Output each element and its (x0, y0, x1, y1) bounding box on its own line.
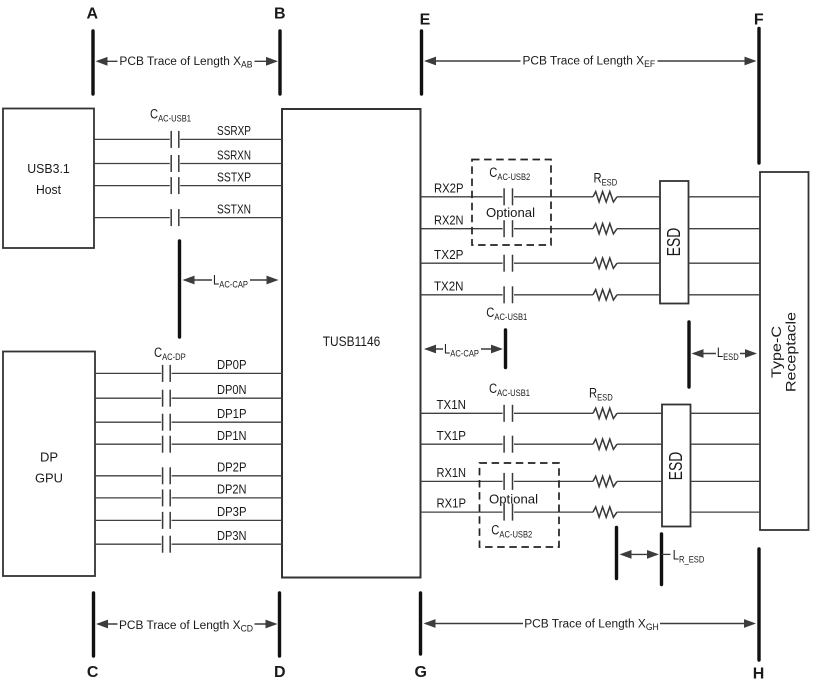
svg-text:Optional: Optional (489, 492, 538, 507)
svg-text:TUSB1146: TUSB1146 (323, 334, 381, 349)
svg-text:DP2P: DP2P (217, 460, 247, 475)
svg-text:TX2N: TX2N (434, 278, 464, 293)
svg-text:Host: Host (36, 182, 61, 197)
svg-text:RX1N: RX1N (437, 465, 467, 480)
svg-text:TX2P: TX2P (434, 247, 464, 262)
svg-text:DP1P: DP1P (217, 406, 247, 421)
svg-text:ESD: ESD (665, 452, 686, 481)
svg-text:CAC-USB1: CAC-USB1 (486, 305, 527, 322)
svg-text:TX1P: TX1P (437, 428, 467, 443)
svg-text:SSRXN: SSRXN (217, 147, 251, 162)
svg-text:F: F (754, 12, 764, 29)
svg-text:CAC-USB1: CAC-USB1 (150, 106, 191, 123)
svg-text:SSTXP: SSTXP (217, 169, 251, 184)
svg-text:PCB Trace of Length XEF: PCB Trace of Length XEF (522, 53, 655, 69)
svg-text:DP3N: DP3N (217, 528, 247, 543)
svg-text:A: A (87, 6, 99, 23)
svg-text:RX2N: RX2N (434, 212, 464, 227)
svg-text:GPU: GPU (35, 471, 63, 486)
svg-text:RX1P: RX1P (437, 496, 467, 511)
svg-text:LR_ESD: LR_ESD (673, 547, 705, 564)
svg-text:Optional: Optional (486, 205, 535, 220)
svg-text:E: E (420, 12, 431, 29)
svg-text:SSTXN: SSTXN (217, 201, 251, 216)
svg-text:RESD: RESD (589, 385, 613, 402)
svg-text:Receptacle: Receptacle (783, 312, 799, 392)
svg-text:USB3.1: USB3.1 (27, 161, 70, 176)
svg-text:CAC-USB2: CAC-USB2 (489, 165, 530, 182)
svg-text:PCB Trace of Length XCD: PCB Trace of Length XCD (119, 618, 253, 634)
svg-text:CAC-DP: CAC-DP (154, 345, 186, 362)
svg-text:RESD: RESD (594, 170, 618, 187)
svg-text:PCB Trace of Length XAB: PCB Trace of Length XAB (119, 54, 252, 70)
svg-text:TX1N: TX1N (437, 397, 467, 412)
svg-text:Type-C: Type-C (768, 326, 784, 378)
svg-text:PCB Trace of Length XGH: PCB Trace of Length XGH (524, 616, 659, 632)
svg-text:DP: DP (40, 450, 58, 465)
svg-text:B: B (274, 6, 286, 23)
svg-text:C: C (87, 664, 99, 681)
svg-text:ESD: ESD (663, 228, 684, 257)
svg-text:DP0N: DP0N (217, 382, 247, 397)
svg-text:G: G (414, 664, 426, 681)
svg-text:DP3P: DP3P (217, 504, 247, 519)
svg-text:SSRXP: SSRXP (217, 123, 251, 138)
svg-text:RX2P: RX2P (434, 180, 464, 195)
svg-text:DP2N: DP2N (217, 482, 247, 497)
svg-text:CAC-USB2: CAC-USB2 (491, 522, 532, 539)
svg-text:D: D (274, 664, 286, 681)
svg-text:DP0P: DP0P (217, 357, 247, 372)
svg-text:CAC-USB1: CAC-USB1 (489, 381, 530, 398)
svg-text:H: H (753, 665, 765, 682)
svg-text:DP1N: DP1N (217, 428, 247, 443)
